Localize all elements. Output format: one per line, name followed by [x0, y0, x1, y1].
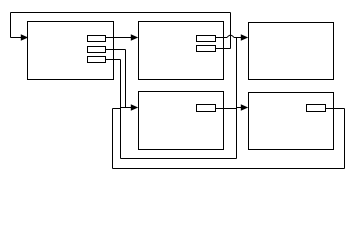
block B5 (bottom-right subsystem)	[249, 93, 334, 150]
wire after hop into B3 input	[234, 37, 242, 39]
wire left branch vertical down	[112, 109, 114, 169]
block B2 (top-middle subsystem)	[139, 22, 224, 80]
wire B5.p1 stub to right vertical	[326, 108, 345, 110]
wire left branch horizontal	[113, 108, 121, 110]
wire into B4 input	[121, 107, 132, 109]
wire outer bottom horizontal	[113, 168, 345, 170]
arrowhead into B3 input	[241, 34, 248, 40]
block B1 (top-left subsystem)	[28, 22, 114, 80]
block B3 (top-right subsystem)	[249, 23, 334, 80]
wire B1.p3 stub to net-A	[106, 59, 121, 61]
wire net-A vertical from B3-input line down	[236, 38, 238, 159]
wire tiny jog at net-A crossing	[236, 108, 238, 109]
wire B1.p1 to B2 input	[106, 37, 132, 39]
wire net-A left vertical up	[120, 60, 122, 159]
wire B1.p2 stub	[106, 49, 126, 51]
wire feedback left vertical down	[10, 13, 12, 38]
port B5.p1	[307, 105, 326, 112]
arrowhead into B1 input	[21, 34, 28, 40]
wire net-A bottom horizontal	[121, 158, 237, 160]
wire feedback vertical up	[230, 13, 232, 49]
wire jog at crossing	[120, 108, 122, 109]
wire right vertical up to B5 port line	[344, 109, 346, 169]
port B4.p1	[197, 105, 216, 112]
port B2.p2	[197, 46, 216, 52]
wire B2.p2 feedback horizontal stub	[216, 48, 231, 50]
port B2.p1	[197, 36, 216, 42]
wire feedback top horizontal	[11, 12, 231, 14]
port B1.p3	[88, 57, 106, 63]
block B4 (bottom-middle subsystem)	[139, 92, 224, 150]
port B1.p2	[88, 47, 106, 53]
wire hop bump	[227, 35, 234, 37]
wire B1.p2 vertical down	[125, 50, 127, 108]
wire B4.p1 toward B5 input	[216, 108, 237, 110]
arrowhead into B4 input	[131, 104, 138, 110]
wire continuation into B5 input	[237, 107, 243, 109]
port B1.p1	[88, 36, 106, 42]
arrowhead into B2 input	[131, 34, 138, 40]
wire B2.p1 toward B3 with hop over feedback line	[216, 37, 228, 39]
arrowhead into B5 input	[241, 104, 248, 110]
wire feedback into B1 input	[11, 37, 22, 39]
